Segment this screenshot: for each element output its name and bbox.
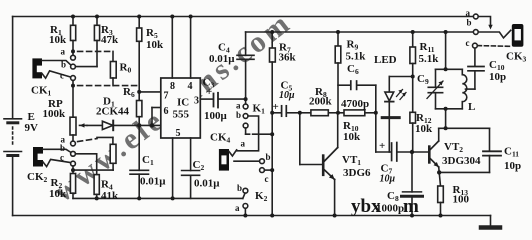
capacitor C11 — [439, 128, 501, 172]
resistor R1 — [71, 17, 76, 56]
svg-text:a: a — [466, 8, 471, 18]
switch K1 contacts — [243, 104, 248, 128]
svg-text:10k: 10k — [415, 123, 433, 135]
resistor R7 column — [270, 32, 276, 216]
resistor R9 — [335, 32, 341, 113]
svg-text:3DG6: 3DG6 — [343, 167, 371, 179]
dashed c to CK3 — [477, 45, 510, 48]
svg-text:ybx: ybx — [351, 196, 381, 217]
resistor R4 — [75, 154, 99, 199]
resistor R8 — [300, 110, 338, 116]
svg-text:7: 7 — [164, 91, 169, 102]
resistor R2 — [70, 174, 75, 199]
switch K2 contacts — [243, 188, 248, 208]
svg-text:47k: 47k — [101, 34, 119, 46]
svg-text:5.1k: 5.1k — [346, 51, 367, 63]
svg-text:c: c — [265, 174, 269, 184]
svg-text:36k: 36k — [279, 52, 297, 64]
svg-text:+: + — [273, 101, 279, 113]
capacitor C7 electrolytic — [376, 143, 429, 162]
svg-text:100: 100 — [453, 194, 470, 206]
jack CK4 — [219, 149, 260, 171]
svg-text:b: b — [60, 143, 65, 153]
svg-text:10μ: 10μ — [279, 90, 295, 101]
wire pins 2/6 — [139, 108, 161, 126]
svg-text:10k: 10k — [49, 188, 67, 200]
svg-text:100μ: 100μ — [204, 110, 228, 122]
svg-text:5: 5 — [176, 128, 181, 139]
contacts CK4 b c — [260, 159, 265, 173]
variable capacitor C9 — [427, 69, 443, 109]
wire VT2 collector — [439, 127, 490, 129]
wire c contact down to RP — [72, 80, 74, 117]
svg-text:8: 8 — [170, 81, 175, 92]
svg-text:41k: 41k — [101, 190, 119, 202]
ground — [481, 216, 500, 228]
svg-text:0.01μ: 0.01μ — [209, 53, 235, 65]
wire rail 2 — [246, 31, 474, 33]
capacitor C5 electrolytic — [272, 106, 300, 116]
svg-text:3: 3 — [194, 96, 199, 107]
svg-text:a: a — [236, 101, 241, 111]
wire pin8 — [171, 17, 173, 79]
wire K1 b to CK4 spring — [237, 116, 259, 151]
svg-text:0.01μ: 0.01μ — [194, 178, 220, 190]
tank circuit riser — [436, 32, 463, 128]
dashed link a to R0 — [78, 50, 112, 52]
svg-text:L: L — [468, 101, 475, 113]
svg-text:c: c — [60, 153, 64, 163]
wire left vertical to battery — [12, 17, 14, 119]
svg-text:200k: 200k — [309, 96, 333, 108]
resistor R12 — [410, 77, 416, 153]
svg-text:6: 6 — [164, 106, 169, 117]
wire bottom rail — [13, 215, 491, 217]
resistor R0 — [110, 51, 116, 85]
diode D1 2CK44 — [87, 121, 139, 131]
capacitor C1 — [130, 125, 149, 198]
svg-text:4: 4 — [188, 81, 193, 92]
dashed link CK2-a to box — [78, 137, 113, 144]
capacitor C8 — [402, 152, 423, 216]
jack CK3 — [512, 24, 524, 47]
switch contacts CK2 a b c — [71, 141, 76, 166]
resistor unlabeled box — [73, 144, 116, 170]
svg-text:b: b — [237, 183, 242, 193]
svg-text:a: a — [235, 203, 240, 213]
svg-text:m: m — [403, 196, 419, 217]
switch contacts CK1 a b c — [71, 55, 76, 80]
svg-text:+: + — [379, 140, 385, 152]
svg-text:555: 555 — [173, 109, 190, 121]
jack CK1 — [32, 58, 70, 78]
svg-text:10μ: 10μ — [380, 174, 396, 185]
resistor R6 — [137, 101, 142, 126]
svg-text:b: b — [266, 152, 271, 162]
LED — [382, 77, 413, 153]
watermark red elecfans — [47, 5, 298, 208]
svg-text:100k: 100k — [43, 108, 67, 120]
svg-text:5.1k: 5.1k — [419, 53, 440, 65]
transistor VT1 — [300, 113, 338, 216]
capacitor C6 — [338, 81, 376, 152]
svg-text:10k: 10k — [146, 39, 164, 51]
svg-text:c: c — [60, 71, 64, 81]
capacitor C10 — [466, 48, 485, 89]
svg-text:c: c — [466, 38, 470, 48]
svg-text:b: b — [61, 60, 66, 70]
svg-text:10p: 10p — [504, 160, 521, 172]
wire lower node — [73, 197, 243, 199]
wire K1 c to R7 line — [246, 128, 273, 134]
wire top rail 1 — [13, 16, 474, 18]
transistor VT2 — [429, 128, 439, 172]
resistor R13 — [438, 172, 444, 215]
svg-text:2CK44: 2CK44 — [96, 106, 130, 118]
svg-text:b: b — [467, 18, 472, 28]
svg-text:3DG304: 3DG304 — [442, 155, 481, 167]
dashed link c to R6 node — [78, 85, 140, 87]
svg-text:+: + — [206, 86, 212, 98]
svg-text:a: a — [241, 139, 246, 149]
capacitor C4 — [237, 32, 254, 104]
svg-text:4700p: 4700p — [341, 98, 369, 110]
svg-text:10k: 10k — [49, 34, 67, 46]
battery E — [4, 119, 22, 216]
svg-text:LED: LED — [374, 54, 397, 66]
resistor R11 — [410, 32, 416, 77]
wire pin4 — [190, 17, 192, 79]
switch K3 arm from a — [478, 17, 492, 30]
potentiometer RP — [70, 117, 87, 141]
svg-text:IC: IC — [177, 97, 189, 109]
wire pin7 — [139, 91, 161, 93]
resistor R5 — [137, 17, 142, 101]
op-amp IC 555 box — [161, 78, 201, 138]
wire b to CK3 spring — [478, 30, 510, 38]
svg-text:10p: 10p — [489, 71, 506, 83]
svg-text:10k: 10k — [343, 131, 361, 143]
capacitor C3 electrolytic on pin3 — [200, 93, 245, 108]
capacitor C2 — [182, 138, 200, 198]
svg-text:b: b — [236, 110, 241, 120]
svg-text:9V: 9V — [25, 122, 39, 134]
jack CK2 — [33, 147, 71, 167]
resistor R3 — [75, 17, 99, 67]
svg-text:0.01μ: 0.01μ — [140, 176, 166, 188]
switch K3 contacts a b c — [473, 14, 479, 48]
inductor L — [462, 69, 467, 109]
resistor R10 — [338, 110, 376, 116]
svg-text:a: a — [61, 47, 66, 57]
wire pin1 — [172, 138, 174, 198]
